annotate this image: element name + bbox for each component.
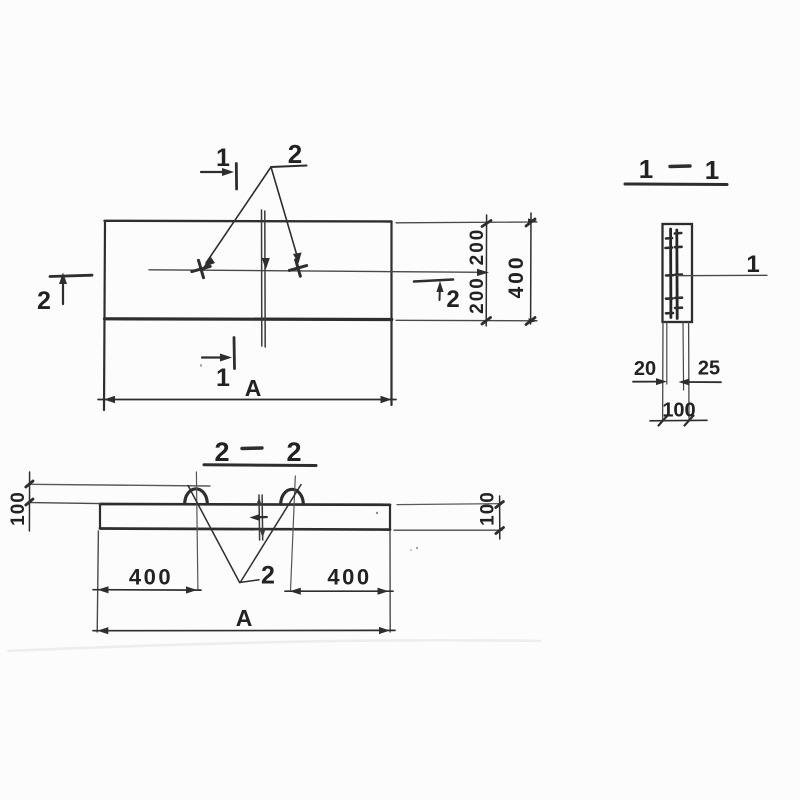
loop top level line (left) <box>29 484 210 486</box>
plan view: horizontal axis line <box>149 270 484 273</box>
lifting loop right <box>281 489 304 504</box>
extension line top right of plan <box>396 221 537 224</box>
centre embed mark (double line) <box>259 495 263 540</box>
section mark 1 top: tick <box>235 164 238 190</box>
extension of plate top to the left <box>30 503 100 504</box>
svg-text:A: A <box>236 605 253 631</box>
section mark 1 bottom: tick <box>233 338 236 369</box>
extension below plate right corner <box>389 531 391 632</box>
svg-text:2: 2 <box>214 437 229 467</box>
dimension 100 (section 1-1) <box>650 419 707 422</box>
embed cross mark left <box>189 258 212 281</box>
centre break line (double) <box>262 210 266 347</box>
section 2-2 plate: right edge <box>389 505 391 530</box>
axis line (section 1-1) <box>677 274 767 276</box>
lifting loop left <box>185 489 208 504</box>
section mark 2 right: up arrow <box>439 285 442 300</box>
loop right centerline <box>291 476 296 591</box>
dimension 100 left (loop height) <box>28 472 30 531</box>
dimension 100 right (plate thickness) <box>499 496 501 539</box>
leader V from loops to label 2 <box>188 486 240 583</box>
section 1-1 outline <box>663 224 693 322</box>
axis arrowhead at dim line <box>477 269 489 276</box>
dimension line 400 (plan right) <box>530 213 532 324</box>
dimension 400 left <box>93 589 201 591</box>
svg-text:100: 100 <box>478 491 499 526</box>
rebar left (section 1-1) <box>669 229 672 318</box>
svg-text:200: 200 <box>467 228 488 266</box>
svg-text:1: 1 <box>639 154 653 184</box>
svg-text:1: 1 <box>216 364 230 392</box>
extension lines below section 1-1 <box>662 322 664 420</box>
svg-text:2: 2 <box>286 437 301 467</box>
loop left centerline <box>196 472 198 589</box>
svg-text:2: 2 <box>261 562 275 590</box>
leader lines from label 2 to embeds <box>271 166 307 168</box>
section mark 1 bottom: arrow <box>202 356 224 358</box>
extension top right of plate <box>397 504 502 505</box>
svg-text:2: 2 <box>288 139 302 169</box>
section mark 2 right: bar <box>414 280 453 282</box>
title 1-1 underline <box>625 183 727 187</box>
plan view: plate outline left edge (extended to dim line) <box>104 221 105 410</box>
dimension line A (section 2-2) <box>93 629 395 631</box>
svg-text:400: 400 <box>327 565 371 590</box>
centre embed arrow <box>255 516 267 519</box>
extension line bottom right of plan <box>396 319 537 322</box>
centre down arrowhead on break line <box>262 258 270 270</box>
svg-text:20: 20 <box>634 358 656 380</box>
dimension line A (plan) <box>98 399 396 401</box>
plan view: plate outline top edge <box>105 220 392 223</box>
rebar right (section 1-1) <box>675 230 678 319</box>
svg-text:100: 100 <box>8 491 29 526</box>
extension below plate left corner <box>97 531 98 632</box>
svg-text:100: 100 <box>662 400 695 422</box>
section mark 1 top: arrow <box>201 171 226 173</box>
section 2-2 plate: bottom edge <box>100 529 390 530</box>
extension bottom right of plate <box>394 529 502 531</box>
svg-text:2: 2 <box>37 287 51 315</box>
embed cross mark right <box>287 257 309 278</box>
svg-text:400: 400 <box>129 565 173 590</box>
svg-text:25: 25 <box>698 358 720 380</box>
tiny scan specks <box>376 512 378 514</box>
section 2-2 plate: top edge <box>100 503 390 506</box>
svg-text:400: 400 <box>505 254 528 298</box>
section mark 2 left: up arrow <box>62 281 64 304</box>
svg-text:A: A <box>245 375 262 401</box>
dimension line 200/200 <box>485 215 487 326</box>
svg-text:1: 1 <box>746 251 759 278</box>
svg-text:200: 200 <box>467 276 488 314</box>
svg-text:1: 1 <box>216 144 230 172</box>
section mark 2 left: bar <box>50 275 92 276</box>
title 2-2 underline <box>204 463 316 467</box>
faint scan smudge line <box>8 640 540 651</box>
plan view: plate outline right edge (extended to dim line) <box>390 222 392 406</box>
rebar transverse ticks <box>675 232 682 235</box>
svg-text:2: 2 <box>446 286 459 313</box>
svg-text:1: 1 <box>705 155 719 185</box>
section 2-2 plate: left edge <box>99 504 101 529</box>
plan view: plate bottom thick edge <box>105 317 392 321</box>
dimension 400 right <box>285 590 393 592</box>
